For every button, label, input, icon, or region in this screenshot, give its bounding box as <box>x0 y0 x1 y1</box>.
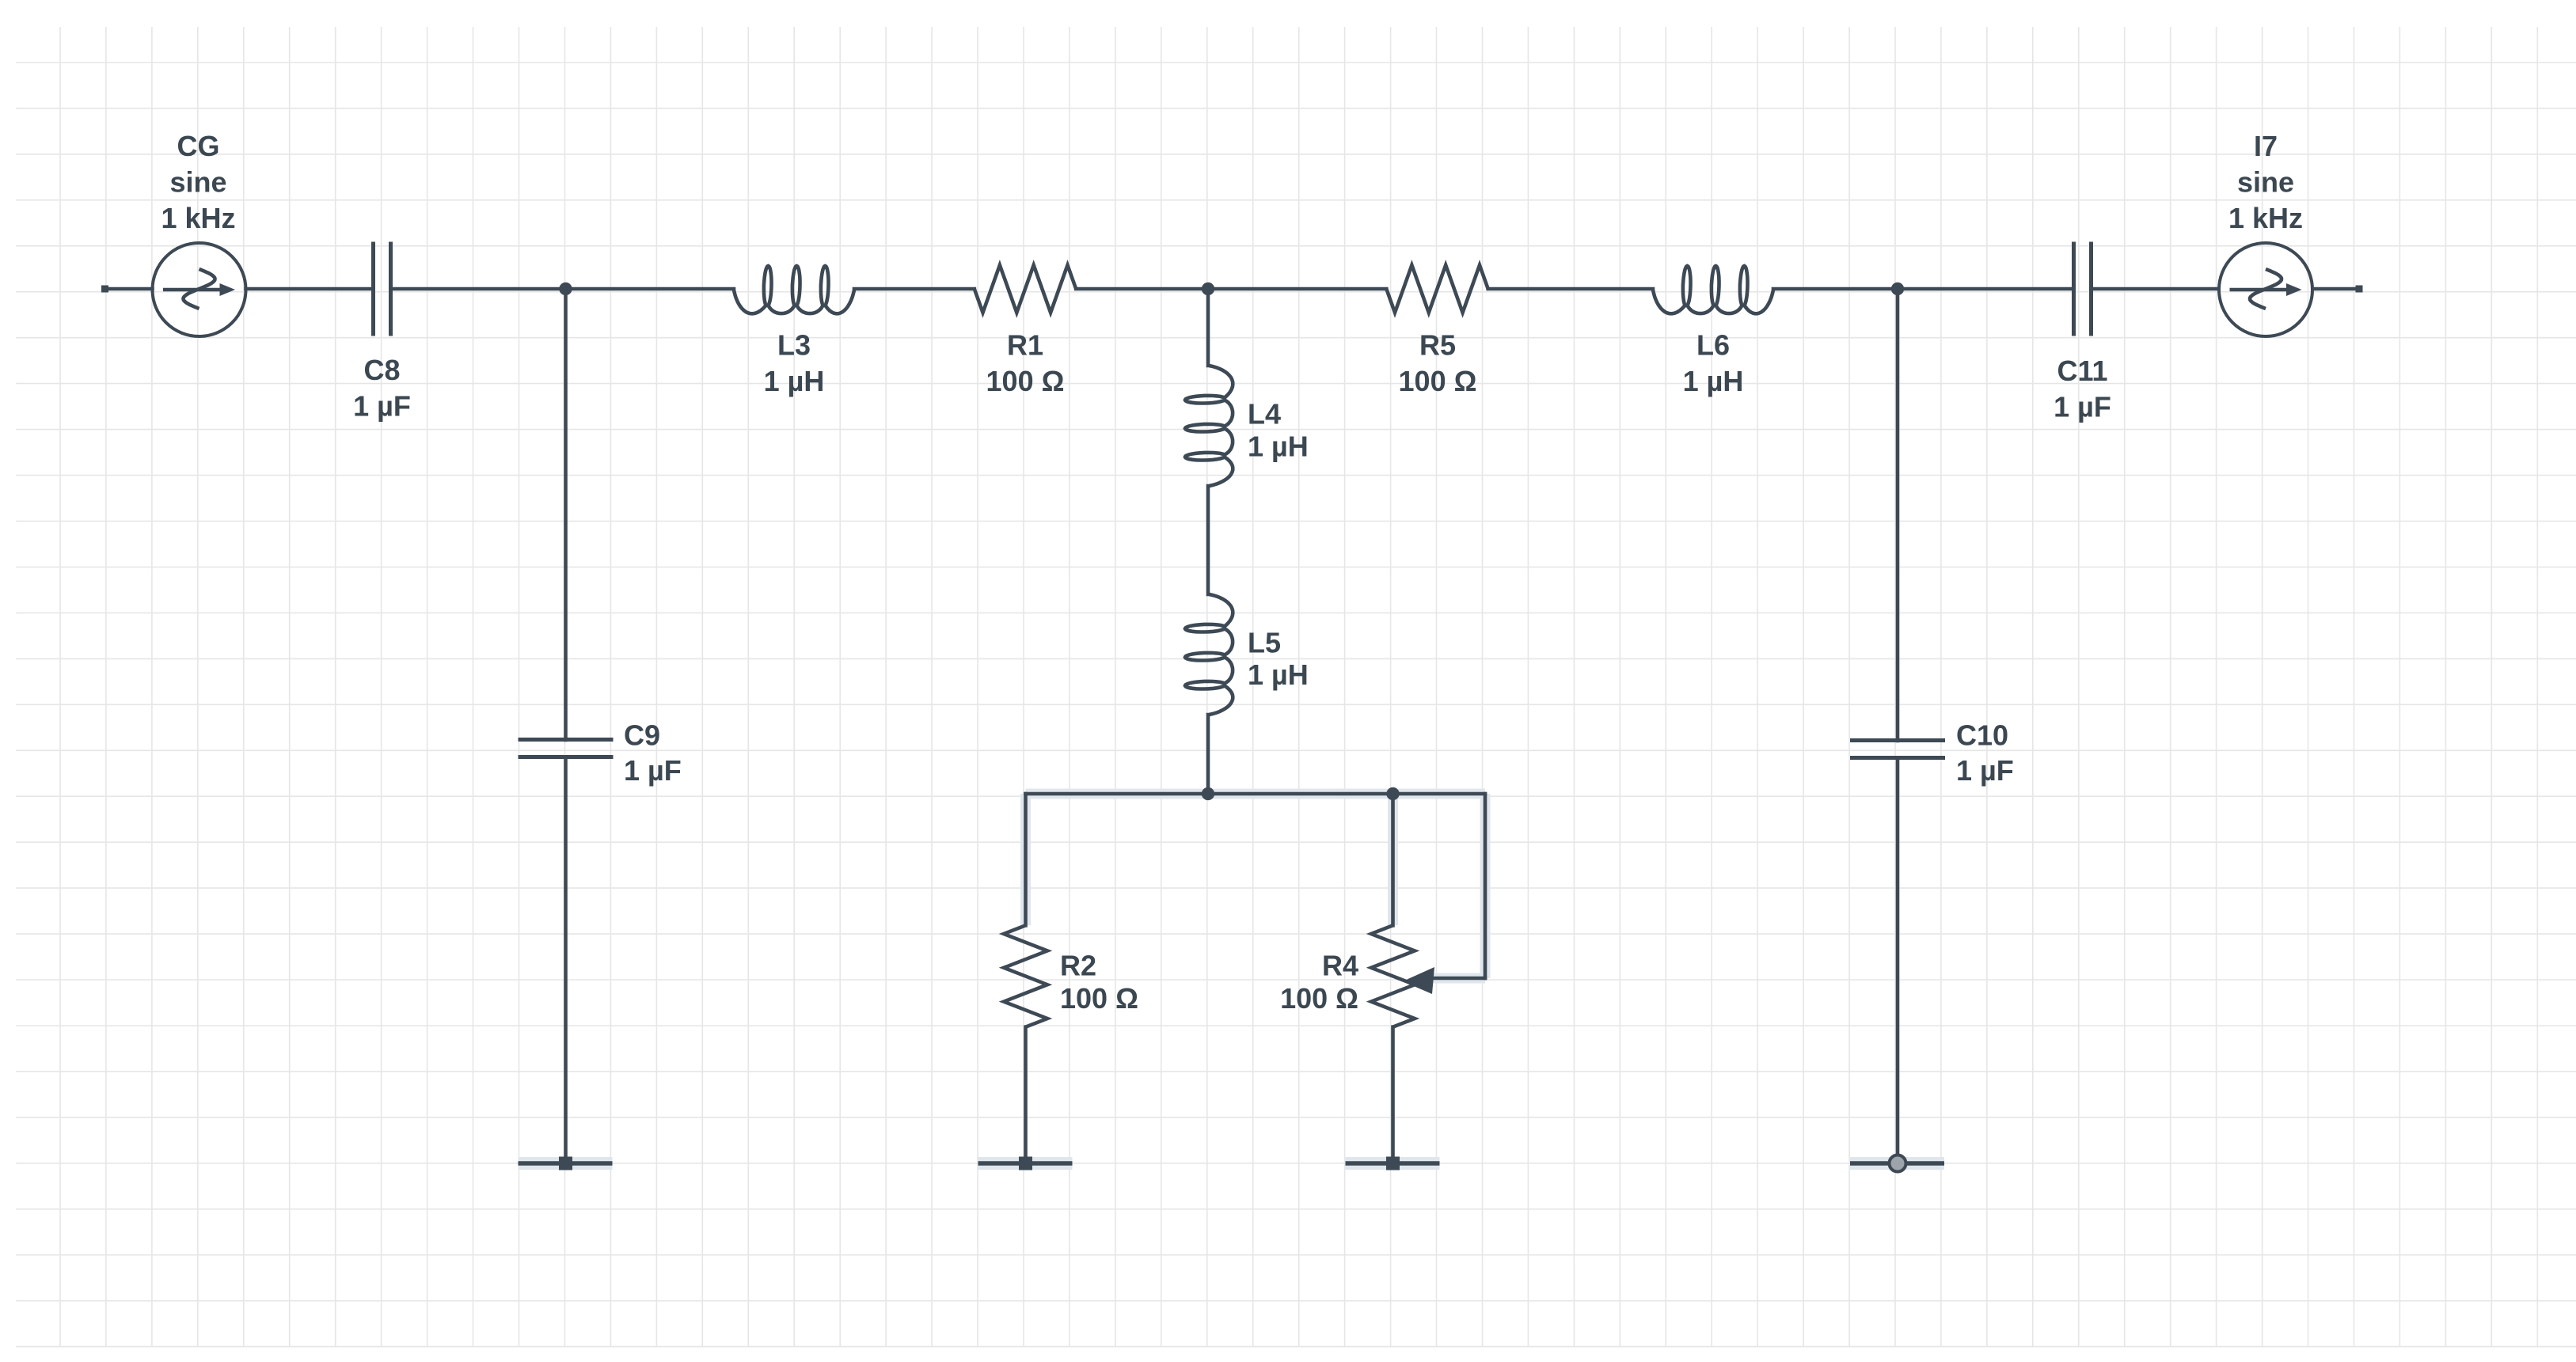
label R1 100 Ohm <box>986 329 1065 398</box>
wire: node B to R5 <box>1208 287 1386 291</box>
label C9 1 uF <box>624 719 682 787</box>
ground under R4 <box>1346 1157 1440 1170</box>
wire: L6 to node C <box>1773 287 1898 291</box>
svg-text:R1: R1 <box>1007 329 1043 362</box>
svg-text:1 µF: 1 µF <box>2054 391 2111 423</box>
capacitor C10 <box>1850 741 1945 758</box>
R4 wiper arrowhead <box>1403 967 1434 994</box>
svg-text:1 µF: 1 µF <box>1956 754 2014 787</box>
wire: L5 down to bridge <box>1206 715 1210 794</box>
wire: left stub to CG source <box>101 286 153 293</box>
junction: bridge at R4 <box>1386 787 1399 800</box>
svg-text:C11: C11 <box>2057 355 2107 387</box>
svg-text:100 Ω: 100 Ω <box>1060 982 1138 1015</box>
inductor L3 <box>734 266 854 313</box>
label L4 1 uH <box>1248 398 1309 463</box>
label L6 1 uH <box>1683 329 1744 398</box>
svg-text:sine: sine <box>169 166 226 199</box>
wire: C11 to I7 <box>2092 287 2219 291</box>
inductor L6 <box>1653 266 1773 313</box>
wire: node A to L3 <box>566 287 735 291</box>
wire: R5 to L6 <box>1488 287 1653 291</box>
inductor L4 <box>1185 366 1233 486</box>
svg-text:R5: R5 <box>1419 329 1456 362</box>
wire: node B down to L4 <box>1206 289 1210 366</box>
wire: bridge horizontal <box>1026 792 1486 796</box>
svg-text:L4: L4 <box>1248 398 1281 431</box>
svg-text:C10: C10 <box>1956 719 2008 752</box>
label C10 1 uF <box>1956 719 2014 787</box>
svg-text:1 µF: 1 µF <box>353 390 411 423</box>
resistor R5 <box>1386 265 1487 313</box>
label R4 100 Ohm <box>1280 950 1358 1015</box>
wire: C10 to ground <box>1896 758 1900 1164</box>
wire: R4 to ground <box>1391 1027 1395 1163</box>
label R2 100 Ohm <box>1060 950 1138 1015</box>
wire: bridge down to R4 <box>1391 794 1395 925</box>
junction: bridge at L5 <box>1202 787 1214 800</box>
ground under R2 <box>978 1157 1073 1170</box>
ground net node under C10 <box>1850 1155 1944 1172</box>
potentiometer R4 <box>1371 925 1415 1026</box>
ground under C9 <box>519 1157 613 1170</box>
wire: L4 to L5 <box>1206 486 1210 594</box>
wire: node C to C11 <box>1898 287 2074 291</box>
wire: R2 to ground <box>1024 1027 1028 1163</box>
wire: C8 to node A <box>391 287 566 291</box>
resistor R2 <box>1004 925 1047 1026</box>
wire: R1 to node B <box>1076 287 1208 291</box>
svg-text:1 kHz: 1 kHz <box>2228 202 2303 234</box>
wire: I7 to right stub end <box>2313 286 2363 293</box>
wire: node C down to C10 <box>1896 289 1900 741</box>
inductor L5 <box>1185 594 1233 715</box>
label I7 sine 1 kHz <box>2228 130 2303 234</box>
wire halo underlay <box>1026 794 1486 978</box>
wire: CG to C8 <box>246 287 374 291</box>
label R5 100 Ohm <box>1399 329 1477 398</box>
svg-text:R4: R4 <box>1322 950 1358 982</box>
svg-text:1 µH: 1 µH <box>764 365 825 397</box>
svg-text:100 Ω: 100 Ω <box>1280 982 1358 1015</box>
svg-text:C8: C8 <box>363 354 400 386</box>
label L5 1 uH <box>1248 627 1309 692</box>
label C11 1 uF <box>2054 355 2111 423</box>
R4 wiper arm wire <box>1427 794 1485 978</box>
svg-text:100 Ω: 100 Ω <box>986 365 1065 397</box>
wire: node A down to C9 <box>564 289 568 740</box>
node A junction <box>559 283 572 295</box>
label C8 1 uF <box>353 354 411 423</box>
capacitor C8 <box>374 242 391 336</box>
current source I7 <box>2219 243 2312 336</box>
svg-text:CG: CG <box>177 130 220 162</box>
svg-text:100 Ω: 100 Ω <box>1399 365 1477 397</box>
label L3 1 uH <box>764 329 825 398</box>
node B junction <box>1202 283 1214 295</box>
wire: L3 to R1 <box>854 287 975 291</box>
current source CG <box>153 243 246 336</box>
svg-text:1 µH: 1 µH <box>1248 431 1309 463</box>
svg-text:sine: sine <box>2237 166 2294 199</box>
capacitor C11 <box>2074 242 2092 336</box>
label CG sine 1 kHz <box>161 130 235 234</box>
svg-text:1 µH: 1 µH <box>1248 658 1309 691</box>
wire: C9 to ground <box>564 757 568 1164</box>
svg-text:C9: C9 <box>624 719 660 752</box>
svg-text:L5: L5 <box>1248 627 1281 659</box>
svg-text:1 µH: 1 µH <box>1683 365 1744 397</box>
node C junction <box>1891 283 1904 295</box>
svg-text:1 kHz: 1 kHz <box>161 202 235 234</box>
resistor R1 <box>975 265 1076 313</box>
svg-text:L3: L3 <box>777 329 811 362</box>
wire: bridge down to R2 <box>1024 794 1028 925</box>
svg-text:I7: I7 <box>2254 130 2278 162</box>
svg-text:L6: L6 <box>1696 329 1730 362</box>
svg-text:R2: R2 <box>1060 950 1096 982</box>
svg-text:1 µF: 1 µF <box>624 754 682 787</box>
capacitor C9 <box>519 740 614 757</box>
